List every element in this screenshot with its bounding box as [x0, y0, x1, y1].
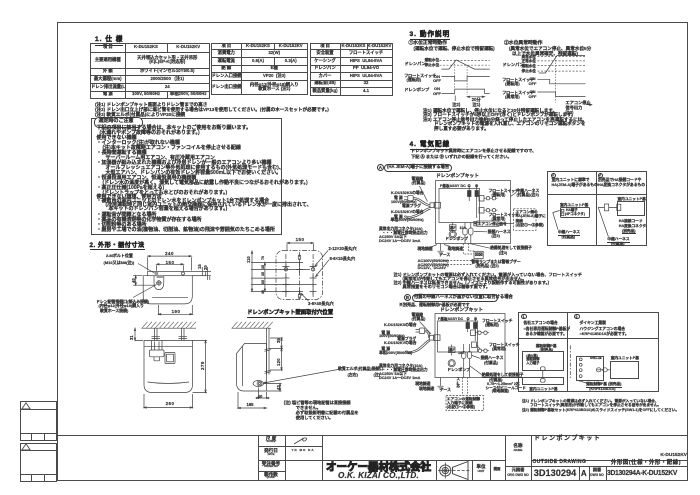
revision block 1 (bottom-left, outside frame) [20, 401, 57, 441]
A: relay harness leader + wire [511, 193, 517, 197]
pan inner line (plan) [152, 297, 188, 299]
port label leader [133, 285, 157, 298]
dims 15/20 right [202, 267, 211, 280]
bottom row [505, 466, 689, 467]
panel B cell1 [536, 344, 557, 348]
company cell [322, 460, 505, 461]
dim 40 [256, 388, 270, 400]
side body outline [237, 344, 267, 392]
A: harness label leader [474, 231, 487, 233]
panel B cell2 [576, 356, 604, 381]
spec table 2 [211, 43, 308, 96]
drain port funnel [154, 276, 164, 290]
A: power cord label leader [420, 186, 428, 202]
plan view: dim 150 [157, 264, 184, 271]
dim 31 [135, 328, 143, 340]
B: panel2 inner details [579, 358, 582, 361]
dim 260 [144, 394, 193, 409]
wall-mount dim 150 [287, 243, 314, 250]
dim 43 [264, 384, 282, 392]
hanging bolts (front) [155, 328, 185, 340]
B: float switch (run) [471, 330, 476, 336]
notes under tables [95, 102, 207, 107]
A: aircon stop signal terminal [477, 221, 499, 226]
timing diagram 1: drain pan level dashed lines [440, 60, 490, 65]
label column 尺度/発行日/受注番号/製作数 [258, 435, 259, 482]
timing diagram 2: float switch (abnormal) trace [537, 92, 585, 97]
mounting hole marks [282, 263, 289, 270]
20min dimension [467, 96, 485, 98]
panel1 harness line [553, 211, 560, 230]
name plate [165, 353, 175, 364]
A: float switch (run) [479, 196, 484, 202]
timing diagram 1: water level wave [442, 60, 490, 69]
left dim extension lines [251, 263, 310, 292]
dim 165 [238, 392, 267, 409]
pan inner bottom [148, 382, 190, 384]
rotated dim texts [132, 278, 137, 283]
spec table 3 [310, 43, 393, 96]
scale slash symbol [288, 436, 318, 446]
B: power cord label leader [420, 322, 432, 335]
elbow label leader [264, 370, 339, 384]
ceiling hatch (front view) [142, 327, 197, 329]
dim 120 [270, 348, 283, 370]
B: fuse + motor [449, 347, 456, 353]
B: power plug icon [419, 328, 424, 334]
B diagram texts [440, 308, 483, 314]
B: ground [440, 378, 442, 386]
A diagram texts [436, 174, 479, 180]
drain outlet spout [152, 341, 163, 351]
spec table 1 [90, 43, 210, 99]
A: P board [439, 189, 480, 223]
diagram 1 guide lines [455, 61, 467, 95]
A label [377, 164, 384, 171]
front body outline [144, 341, 193, 393]
timing diagram 2: level dashed lines [538, 57, 586, 72]
right panel B [518, 312, 659, 391]
hole labels leaders [315, 251, 328, 266]
diagram 2 guide line [555, 57, 557, 103]
dim 110 [252, 251, 265, 291]
bolt label leader [138, 264, 156, 275]
top flange bar [148, 271, 206, 275]
dim 35 [270, 338, 283, 348]
pump body (plan) [143, 276, 192, 304]
elbow port [253, 381, 263, 387]
B: harness connectors [462, 352, 466, 359]
A: ground wire + symbol [440, 244, 442, 251]
A: genchi label leaders [429, 245, 450, 249]
B: P board [438, 321, 478, 352]
wall-mount plate outline (chain) [276, 251, 323, 300]
panel2 connectors [605, 204, 609, 211]
B: panel1 connector pills [541, 367, 546, 371]
A: power plug icon [408, 195, 413, 201]
A: power inlet connector [430, 203, 434, 208]
dim 40 left [133, 276, 156, 286]
hanging bolt (side) [267, 328, 270, 374]
right panel A [547, 171, 647, 247]
timing diagram 1: pump trace [442, 89, 490, 93]
B: drain pump kit box [435, 314, 505, 378]
A: fuse + motor [450, 225, 457, 231]
A: harness connectors [463, 228, 467, 235]
B: harness label leader [472, 356, 480, 359]
A: fuses [468, 191, 472, 197]
third angle projection symbol [436, 460, 472, 481]
A: alarm output dashed wires [464, 244, 475, 255]
B: output dashed wires to aircon [463, 378, 468, 396]
B: insulated terminal leader [470, 366, 482, 375]
A: float switch (abnormal) [479, 208, 484, 214]
B: float switch (abnormal) [472, 342, 477, 348]
timing diagram 1: float switch trace [442, 77, 490, 81]
B label [404, 294, 411, 301]
dim 190 [158, 305, 192, 315]
dim 270 [193, 341, 208, 393]
A: drain pump kit box [436, 181, 511, 244]
hole centerlines [286, 252, 313, 299]
revision block 2 [20, 443, 57, 482]
timing diagram 2: float switch (run) trace [537, 79, 585, 84]
ceiling hatch (side view) [232, 327, 272, 329]
B: power inlet connector [430, 335, 434, 340]
B: fuses [466, 323, 470, 329]
B: bare wire pair [408, 340, 430, 354]
aircon stop signal arrow [586, 104, 592, 106]
plan view: dim 240 [148, 256, 192, 270]
A: bare wire pair [407, 208, 431, 219]
A: insulated terminal leader [471, 244, 490, 248]
timing diagram 2: rising level ramp [539, 56, 585, 74]
name cell [505, 435, 506, 482]
